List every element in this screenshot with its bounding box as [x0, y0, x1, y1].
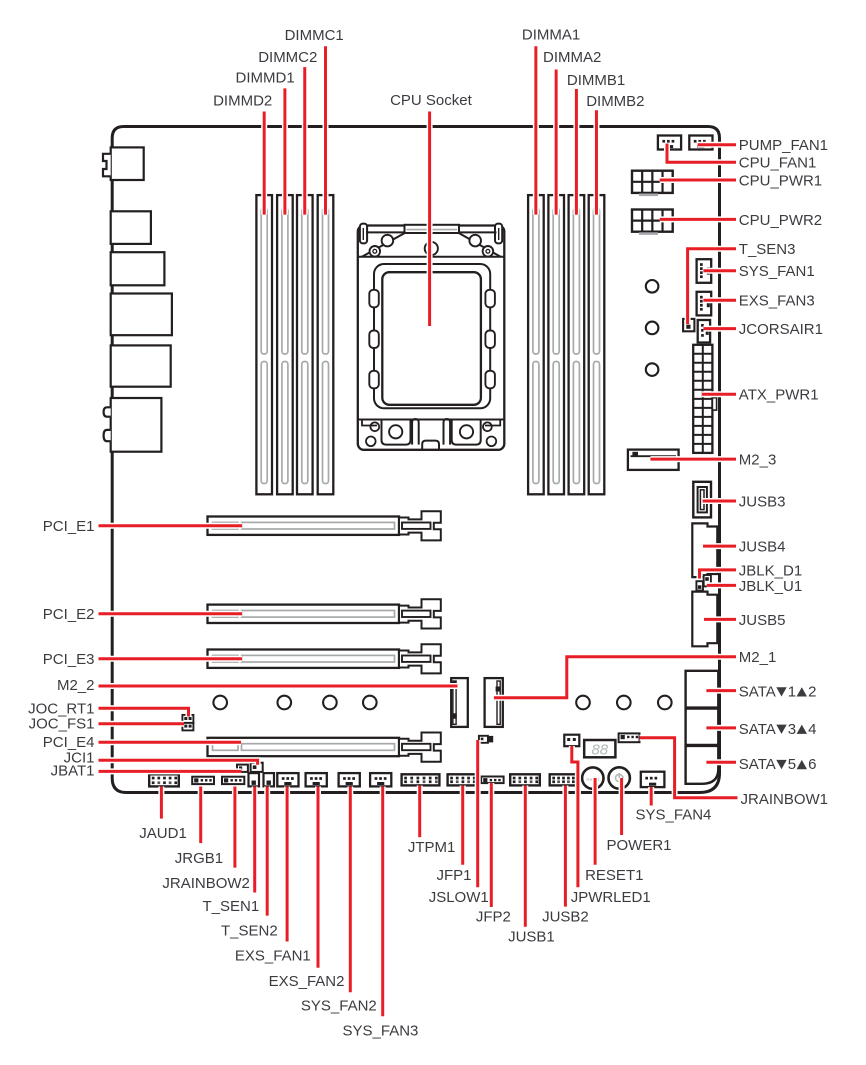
callout DIMMB1: [575, 89, 578, 215]
svg-text:DIMMD2: DIMMD2: [213, 93, 272, 110]
DIMM slot DIMMC2: [297, 195, 313, 494]
button POWER1: [609, 767, 630, 788]
svg-text:88: 88: [591, 742, 608, 759]
DIMM slot DIMMC1: [318, 195, 334, 494]
callout T_SEN2: [266, 787, 269, 916]
svg-text:CPU_PWR1: CPU_PWR1: [739, 172, 822, 189]
DIMM slot DIMMD1: [277, 195, 293, 494]
svg-text:JAUD1: JAUD1: [139, 825, 187, 842]
svg-text:JTPM1: JTPM1: [408, 839, 456, 856]
svg-text:EXS_FAN2: EXS_FAN2: [269, 973, 345, 990]
svg-text:DIMMB2: DIMMB2: [586, 93, 644, 110]
LED header JPWRLED1: [564, 735, 579, 747]
USB header JUSB2: [550, 774, 577, 785]
jumper JOC_RT1: [182, 715, 193, 723]
USB header JUSB1: [510, 774, 540, 785]
callout CPU_PWR1: [660, 179, 736, 182]
audio jack bump 1: [104, 407, 111, 416]
CPU socket U1 (sTRX4): [358, 226, 505, 450]
callout EXS_FAN2: [317, 787, 320, 968]
svg-text:JFP1: JFP1: [437, 867, 472, 884]
callout T_SEN1: [253, 787, 256, 893]
callout DIMMA1: [534, 46, 537, 214]
debug LED display: [584, 740, 615, 757]
header JCORSAIR1: [698, 320, 710, 343]
callout EXS_FAN3: [703, 299, 736, 302]
rear I/O connector 2: [111, 211, 151, 244]
jumper JCI1: [251, 763, 263, 772]
callout SATA56: [706, 761, 736, 764]
svg-text:SATA: SATA: [739, 721, 776, 738]
jumper JBLK_U1: [704, 575, 711, 586]
jumper JOC_FS1: [182, 723, 193, 731]
svg-text:M2_1: M2_1: [739, 649, 777, 666]
svg-text:3: 3: [788, 721, 796, 738]
callout M2_2: [99, 685, 458, 688]
svg-text:DIMMD1: DIMMD1: [236, 70, 295, 87]
callout JCORSAIR1: [703, 327, 736, 330]
callout M2_1: [494, 657, 736, 698]
jumper JSLOW1: [479, 736, 488, 743]
callout T_SEN3: [688, 249, 736, 324]
jumper header JFP2: [481, 777, 503, 784]
DIMM slot DIMMD2: [256, 195, 272, 494]
fan header EXS_FAN3: [697, 292, 712, 316]
DIMM slot DIMMA2: [548, 195, 564, 494]
callout DIMMD1: [283, 88, 286, 214]
callout SYS_FAN3: [381, 787, 384, 1017]
DIMM slot DIMMB2: [589, 195, 605, 494]
svg-text:CPU Socket: CPU Socket: [390, 92, 473, 109]
callout SYS_FAN4: [650, 787, 653, 806]
svg-text:PUMP_FAN1: PUMP_FAN1: [739, 137, 828, 154]
svg-text:DIMMC1: DIMMC1: [285, 27, 344, 44]
PCI-E slot PCI_E3: [208, 650, 400, 668]
callout ATX_PWR1: [702, 393, 736, 396]
callout JRAINBOW1: [640, 738, 738, 798]
svg-text:JUSB1: JUSB1: [508, 929, 555, 946]
mounting holes right column: [646, 280, 659, 293]
svg-text:SATA: SATA: [739, 756, 776, 773]
rear I/O connector 4: [111, 294, 172, 336]
svg-text:5: 5: [788, 756, 796, 773]
svg-text:EXS_FAN3: EXS_FAN3: [739, 293, 815, 310]
svg-text:SYS_FAN1: SYS_FAN1: [739, 263, 815, 280]
svg-text:PCI_E2: PCI_E2: [43, 606, 95, 623]
fan header CPU_FAN1: [658, 136, 681, 150]
callout JOC_FS1: [99, 722, 185, 725]
callout CPU_PWR2: [660, 218, 736, 221]
svg-text:M2_2: M2_2: [57, 677, 95, 694]
rear I/O connector 1 (PS/2 block): [111, 147, 144, 180]
svg-text:JOC_FS1: JOC_FS1: [29, 715, 95, 732]
callout DIMMC1: [324, 46, 327, 214]
PCI-E slot PCI_E4: [208, 738, 400, 756]
svg-text:RESET1: RESET1: [585, 867, 643, 884]
svg-text:JBLK_D1: JBLK_D1: [739, 562, 802, 579]
PCI-E slot PCI_E1: [208, 517, 400, 535]
M.2 slot M2_3: [628, 450, 679, 470]
callout DIMMB2: [595, 110, 598, 214]
svg-text:JBLK_U1: JBLK_U1: [739, 578, 802, 595]
callout JAUD1: [160, 787, 163, 819]
callout white casings: [323, 46, 329, 214]
callout CPU_FAN1: [667, 144, 736, 163]
jumper T_SEN3: [683, 319, 694, 331]
callout SYS_FAN2: [349, 787, 352, 993]
svg-text:JRAINBOW1: JRAINBOW1: [741, 791, 829, 808]
power connector CPU_PWR1: [632, 171, 673, 193]
callout JPWRLED1: [572, 746, 578, 887]
RGB header JRAINBOW1: [619, 733, 640, 742]
callout JFP1: [461, 786, 464, 865]
svg-text:T_SEN3: T_SEN3: [739, 241, 796, 258]
callout JBLK_U1: [707, 584, 736, 587]
svg-text:M2_3: M2_3: [739, 452, 777, 469]
USB3 header JUSB5: [692, 592, 717, 647]
callout JRGB1: [199, 787, 202, 844]
callout SATA34: [706, 726, 736, 729]
callout PUMP_FAN1: [698, 143, 736, 146]
svg-text:SATA: SATA: [739, 684, 776, 701]
svg-text:JUSB2: JUSB2: [542, 909, 589, 926]
TPM header JTPM1: [402, 774, 440, 785]
callout JRAINBOW2: [233, 787, 236, 868]
svg-text:JFP2: JFP2: [476, 909, 511, 926]
svg-text:CPU_PWR2: CPU_PWR2: [739, 212, 822, 229]
callout JUSB1: [524, 786, 527, 927]
svg-text:T_SEN1: T_SEN1: [203, 898, 260, 915]
svg-text:JSLOW1: JSLOW1: [429, 889, 489, 906]
callout DIMMD2: [263, 112, 266, 215]
motherboard PCB outline: [112, 127, 719, 793]
svg-text:JUSB3: JUSB3: [739, 493, 786, 510]
callout CPU Socket: [428, 112, 431, 327]
svg-text:PCI_E4: PCI_E4: [43, 734, 95, 751]
callout DIMMC2: [303, 67, 306, 215]
svg-text:DIMMA1: DIMMA1: [522, 27, 580, 44]
SATA connectors SATA1-6: [686, 671, 719, 784]
fan header EXS_FAN2: [306, 773, 327, 786]
svg-text:PCI_E1: PCI_E1: [43, 518, 95, 535]
jumper JBAT1: [237, 765, 248, 772]
callout DIMMA2: [555, 70, 558, 215]
fan header EXS_FAN1: [277, 773, 298, 786]
DIMM slot DIMMB1: [569, 195, 585, 494]
svg-text:POWER1: POWER1: [607, 837, 672, 854]
rear I/O connector 1 tab: [103, 154, 111, 177]
callout SYS_FAN1: [703, 269, 736, 272]
svg-text:JPWRLED1: JPWRLED1: [571, 889, 651, 906]
rear I/O connector 5: [111, 345, 171, 386]
fan header SYS_FAN3: [370, 773, 391, 786]
callout JFP2: [490, 783, 493, 907]
M.2 slot M2_1: [485, 678, 503, 727]
rear I/O audio connector 6: [111, 398, 162, 452]
svg-text:T_SEN2: T_SEN2: [221, 922, 278, 939]
callout SATA12: [706, 689, 736, 692]
callout RESET1: [594, 778, 597, 865]
RGB header JRGB1: [192, 777, 214, 784]
button RESET1: [582, 767, 603, 788]
callout JCI1: [99, 760, 258, 765]
sensor header T_SEN2: [264, 773, 275, 786]
callout JUSB4: [703, 545, 736, 548]
svg-text:DIMMB1: DIMMB1: [567, 72, 625, 89]
RGB header JRAINBOW2: [222, 777, 244, 784]
jumper JBLK_D1: [696, 581, 703, 590]
svg-text:6: 6: [808, 756, 816, 773]
svg-text:DIMMA2: DIMMA2: [543, 49, 601, 66]
svg-text:SYS_FAN3: SYS_FAN3: [343, 1023, 419, 1040]
svg-text:DIMMC2: DIMMC2: [258, 49, 317, 66]
callout PCI_E3: [99, 657, 243, 660]
fan header PUMP_FAN1: [689, 136, 712, 150]
callout PCI_E4: [99, 741, 242, 744]
callout POWER1: [620, 778, 623, 835]
fan header SYS_FAN4: [641, 772, 665, 787]
svg-text:JUSB4: JUSB4: [739, 539, 786, 556]
svg-text:JRAINBOW2: JRAINBOW2: [162, 875, 250, 892]
svg-text:JRGB1: JRGB1: [175, 850, 223, 867]
svg-text:ATX_PWR1: ATX_PWR1: [739, 387, 819, 404]
audio header JAUD1: [149, 774, 179, 786]
fan header SYS_FAN1: [697, 259, 712, 283]
callout JTPM1: [418, 786, 421, 838]
svg-text:SYS_FAN4: SYS_FAN4: [636, 807, 712, 824]
fan header SYS_FAN2: [339, 773, 360, 786]
USB-C header JUSB3: [693, 482, 711, 518]
callout EXS_FAN1: [286, 787, 289, 942]
callout PCI_E2: [99, 612, 243, 615]
sensor header T_SEN1: [249, 773, 260, 786]
svg-text:4: 4: [808, 721, 816, 738]
callout JUSB5: [704, 618, 736, 621]
svg-text:JBAT1: JBAT1: [51, 763, 95, 780]
M.2 slot M2_2: [451, 678, 468, 727]
svg-text:JUSB5: JUSB5: [739, 612, 786, 629]
DIMM slot DIMMA1: [528, 195, 544, 494]
power connector ATX_PWR1: [693, 345, 712, 453]
callout PCI_E1: [99, 524, 243, 527]
PCI-E slot PCI_E2: [208, 605, 400, 623]
callout JOC_RT1: [99, 708, 189, 716]
callout JSLOW1: [476, 740, 479, 887]
callout JBAT1: [99, 770, 242, 773]
audio jack bump 2: [104, 430, 111, 441]
power connector CPU_PWR2: [632, 210, 673, 232]
svg-text:2: 2: [808, 684, 816, 701]
svg-text:JCORSAIR1: JCORSAIR1: [739, 321, 823, 338]
svg-text:CPU_FAN1: CPU_FAN1: [739, 155, 817, 172]
callout JUSB3: [703, 500, 736, 503]
front panel header JFP1: [448, 774, 478, 785]
USB3 header JUSB4: [692, 523, 717, 577]
mounting holes mid row: [213, 696, 227, 710]
callout M2_3: [650, 458, 736, 461]
callout JBLK_D1: [700, 570, 737, 579]
svg-text:EXS_FAN1: EXS_FAN1: [235, 947, 311, 964]
svg-text:PCI_E3: PCI_E3: [43, 651, 95, 668]
rear I/O connector 3: [111, 252, 165, 285]
svg-text:1: 1: [788, 684, 796, 701]
callout JUSB2: [564, 786, 567, 907]
svg-text:SYS_FAN2: SYS_FAN2: [301, 998, 377, 1015]
